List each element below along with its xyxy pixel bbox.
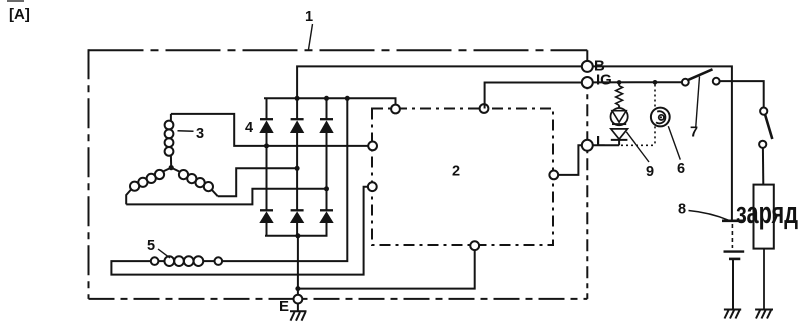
svg-text:заряд: заряд [736, 195, 798, 230]
cropped text remnant at top edge [7, 0, 24, 2]
phase C coil down-left [163, 168, 171, 172]
node star point [169, 165, 174, 170]
wire IG to ignition switch [593, 81, 682, 83]
node lamp tap [653, 80, 658, 85]
label E [279, 298, 289, 315]
node bus-B junction [295, 96, 300, 101]
label 4 [245, 120, 253, 136]
alternator box 1 (dash-dot border) [89, 49, 588, 299]
label IG [596, 72, 612, 89]
node phase B / col2 junction [295, 166, 300, 171]
node bus-field junction [345, 96, 350, 101]
battery 8 [722, 221, 744, 309]
label B [594, 58, 605, 75]
label 8 [678, 202, 730, 221]
terminal regulator top-right [480, 104, 489, 113]
svg-text:E: E [279, 298, 289, 315]
wire field feed (4th vertical from bus) [222, 98, 347, 261]
diode D3 top row col3 [319, 98, 333, 210]
ground at load resistor [755, 310, 773, 319]
terminal regulator left-lower [368, 182, 377, 191]
terminal regulator right [549, 171, 558, 180]
regulator box 2 (dash-dot) [372, 109, 553, 246]
svg-text:2: 2 [452, 164, 460, 180]
diode D2 top row col2 [290, 98, 304, 210]
node bus-col3 junction [324, 96, 329, 101]
terminal L [582, 140, 593, 151]
svg-text:[A]: [A] [9, 6, 30, 23]
terminal regulator top-left [391, 105, 400, 114]
wire phase A to col1 and regulator [171, 114, 369, 146]
label 2 [452, 164, 460, 180]
label 1 [305, 9, 313, 50]
svg-text:8: 8 [678, 202, 686, 218]
dotted wire to charge lamp [621, 85, 655, 146]
phase A vertical coil [170, 114, 172, 121]
svg-text:IG: IG [596, 72, 612, 89]
node E junction [295, 286, 300, 291]
resistor (indicator series) [616, 82, 623, 108]
wire switch 7 to load switch [720, 81, 764, 107]
load switch S2 [759, 108, 772, 185]
charge lamp 6 [651, 108, 670, 127]
stator winding 3 [126, 114, 218, 204]
ignition switch 7 [682, 69, 720, 85]
diode D6 bottom row col3 [319, 210, 333, 236]
ground at E [290, 311, 307, 320]
label 9 [626, 132, 654, 180]
diode D5 bottom row col2 [290, 210, 304, 236]
diode below LED [611, 129, 628, 145]
svg-text:5: 5 [147, 238, 155, 254]
node phase A / col1 junction [264, 143, 269, 148]
wire IG to regulator top-right [485, 83, 583, 109]
wire regulator bottom to E [298, 250, 475, 289]
node resistor tap [617, 80, 622, 85]
diode D4 bottom row col1 [259, 210, 273, 236]
wire L to regulator right terminal [558, 145, 583, 175]
svg-text:7: 7 [690, 125, 698, 141]
wire B output (bus to terminal B to battery drop) [297, 66, 732, 221]
svg-text:L: L [596, 133, 605, 150]
wire rectifier negative bus [265, 235, 328, 237]
ground at battery [724, 310, 741, 319]
diode D1 top row col1 [259, 98, 273, 210]
label L [596, 133, 605, 150]
label 5 [147, 238, 170, 258]
label [A] [9, 6, 30, 23]
wire rectifier positive bus [264, 98, 396, 105]
load resistor box (заряд) [754, 185, 774, 309]
phase B coil down-right [171, 168, 179, 172]
wire phase C to col3 [126, 189, 326, 205]
svg-text:1: 1 [305, 9, 313, 25]
wire L to LED chain [593, 144, 619, 146]
terminal regulator bottom [470, 241, 479, 250]
terminal E [294, 295, 303, 312]
wire regulator left-lower to field winding [111, 187, 368, 275]
label 3 [178, 126, 205, 142]
terminal B [582, 61, 593, 72]
node negative bus junction [295, 233, 300, 238]
LED indicator (element 9) [611, 108, 628, 125]
label 6 [668, 126, 685, 177]
field winding 5 [151, 256, 222, 266]
svg-text:3: 3 [196, 126, 204, 142]
terminal IG [582, 77, 593, 88]
label заряд [736, 195, 798, 230]
wire phase B to col2 [218, 168, 297, 196]
svg-text:4: 4 [245, 120, 253, 136]
wire negative bus to E terminal [297, 236, 299, 295]
label 7 [690, 77, 700, 141]
svg-text:9: 9 [646, 164, 654, 180]
node phase C / col3 junction [324, 186, 329, 191]
svg-text:6: 6 [677, 161, 685, 177]
terminal regulator left-upper [368, 142, 377, 151]
